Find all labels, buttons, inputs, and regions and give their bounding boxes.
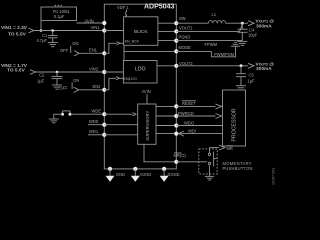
wire WD0 internal: [104, 124, 137, 126]
block BUCK: [124, 17, 158, 46]
ground buck output: [237, 42, 247, 46]
svg-text:AVIN: AVIN: [142, 89, 151, 94]
block PROCESSOR: [223, 90, 246, 146]
svg-text:EN1: EN1: [89, 48, 98, 53]
switch EN1 ON/OFF: [60, 41, 104, 56]
wire PWRGD internal: [156, 115, 176, 117]
wire L1 to node: [226, 22, 248, 25]
wire VIN2 internal: [104, 71, 123, 73]
svg-text:PROCESSOR: PROCESSOR: [232, 108, 238, 141]
IC ADP5043 outline: [104, 4, 176, 169]
wire VOUT2 internal: [157, 65, 176, 67]
ground MODE select: [231, 42, 240, 46]
svg-text:C2: C2: [39, 73, 45, 78]
wire MR external: [176, 161, 207, 163]
pin EN2: [93, 84, 107, 92]
wire WDI from processor: [178, 131, 222, 136]
svg-text:OFF: OFF: [60, 48, 69, 53]
svg-text:BUCK: BUCK: [134, 29, 148, 35]
svg-text:GND: GND: [116, 172, 125, 177]
svg-text:VIN1 = 2.3V: VIN1 = 2.3V: [1, 25, 28, 31]
node VOUT2 output: [248, 61, 274, 72]
switch EN2 ON/OFF: [59, 78, 103, 92]
pin GND: [108, 167, 125, 177]
ground pushbutton: [205, 176, 214, 180]
jumper WDE: [54, 111, 104, 119]
ground C1: [48, 43, 58, 47]
node AVIN feed: [142, 89, 151, 104]
wire PWRGD to processor: [176, 114, 221, 119]
svg-text:FPWM: FPWM: [205, 42, 218, 47]
svg-text:0.1µF: 0.1µF: [54, 14, 65, 19]
node VOUT1 output: [248, 19, 274, 30]
wire AVIN: [77, 22, 104, 24]
wire WDO to processor: [176, 125, 222, 127]
pin RESET: [174, 101, 196, 109]
svg-text:TO 5.5V: TO 5.5V: [7, 67, 26, 73]
wire PGND external: [176, 40, 242, 42]
svg-text:1µF: 1µF: [248, 79, 256, 84]
svg-text:ON: ON: [73, 78, 79, 83]
svg-text:SUPERVISORY: SUPERVISORY: [145, 110, 150, 140]
svg-text:DGND: DGND: [168, 172, 180, 177]
wire VIN2 input: [30, 70, 104, 75]
pin MR: [174, 153, 187, 164]
inductor L1: [209, 12, 226, 23]
svg-text:VIN1: VIN1: [91, 25, 101, 30]
svg-text:PGND: PGND: [179, 35, 191, 40]
pin WDO: [174, 120, 194, 127]
wire VOUT1 feedback: [176, 25, 242, 32]
svg-text:WDO: WDO: [184, 120, 194, 125]
wire SW internal: [158, 22, 176, 24]
svg-text:PWRGD: PWRGD: [178, 111, 194, 116]
svg-text:4.7µF: 4.7µF: [37, 38, 48, 43]
pin VIN2: [89, 66, 106, 74]
svg-text:VDF 1: VDF 1: [117, 5, 129, 10]
pin WD1: [89, 129, 106, 137]
svg-text:SW: SW: [179, 16, 186, 21]
svg-text:PUSHBUTTON: PUSHBUTTON: [223, 166, 253, 171]
svg-text:VIN2: VIN2: [89, 66, 99, 71]
wire VOUT2 external: [176, 64, 248, 67]
svg-text:300mA: 300mA: [256, 66, 272, 72]
svg-text:ON: ON: [72, 41, 78, 46]
pin DGND: [162, 167, 180, 177]
block SUPERVISORY: [138, 104, 156, 144]
svg-text:MR(O): MR(O): [174, 153, 187, 158]
svg-text:1µF: 1µF: [37, 78, 45, 83]
svg-text:TO 5.5V: TO 5.5V: [8, 32, 27, 38]
wire WD1 internal: [104, 134, 137, 136]
pin AVIN: [102, 21, 106, 25]
note marker: [54, 3, 63, 7]
wire VOUT1 internal: [158, 30, 176, 32]
svg-text:LDO: LDO: [135, 67, 146, 73]
svg-text:VOUT1: VOUT1: [179, 26, 193, 31]
pin VIN1: [91, 25, 107, 33]
capacitor C4: [238, 23, 258, 40]
capacitor C1: [37, 31, 58, 44]
ground WDE: [49, 119, 59, 123]
block LDO: [123, 61, 157, 84]
pin SW: [174, 16, 186, 25]
svg-text:EN_BCK: EN_BCK: [125, 39, 140, 43]
pin EN1: [89, 48, 106, 56]
pin WDI: [174, 128, 196, 135]
svg-text:VOUT2: VOUT2: [179, 61, 193, 66]
wire WD1 stub: [88, 134, 104, 136]
wire WDI internal: [156, 133, 176, 135]
ground C3: [52, 85, 62, 89]
capacitor C5: [236, 66, 255, 86]
pin PGND: [174, 35, 190, 43]
svg-text:WDE: WDE: [92, 109, 102, 114]
node MR to processor: [210, 145, 234, 151]
pushbutton MR: [199, 148, 217, 177]
svg-text:WD1: WD1: [89, 129, 99, 134]
wire EN1 internal: [104, 42, 123, 54]
svg-text:ADP5043: ADP5043: [144, 4, 174, 11]
wire SW external: [176, 22, 208, 24]
pin VOUT2: [174, 61, 193, 68]
pin WD0: [89, 119, 106, 127]
node AVIN label: [85, 18, 94, 23]
wire PGND internal: [158, 40, 176, 42]
pin PWRGD: [174, 111, 194, 118]
pin MODE: [174, 45, 191, 54]
node VDDA internal: [117, 5, 129, 17]
svg-text:PWM/PSM: PWM/PSM: [214, 52, 235, 57]
wire MODE internal: [124, 45, 176, 60]
svg-text:L1: L1: [212, 12, 217, 17]
capacitor C3: [37, 72, 63, 85]
svg-text:WD0: WD0: [89, 119, 99, 124]
wire MODE external: [176, 42, 235, 57]
ground AGND pin: [131, 169, 140, 182]
node figure number: [272, 168, 276, 185]
pin AGND: [133, 167, 151, 177]
svg-text:AGND: AGND: [140, 172, 152, 177]
wire EN2 internal: [104, 77, 123, 90]
svg-text:EN|LDO: EN|LDO: [124, 77, 138, 81]
ground LDO output: [236, 86, 246, 90]
wire VIN1 input: [29, 28, 104, 33]
wire RESET to processor: [176, 104, 221, 109]
ground DGND pin: [160, 169, 169, 182]
node pushbutton annotation: [223, 161, 253, 171]
wire VIN1 internal: [104, 30, 123, 32]
wire WDO internal: [156, 125, 176, 127]
svg-text:OFF: OFF: [59, 86, 68, 91]
wire MR internal: [144, 144, 176, 162]
svg-text:EN2: EN2: [93, 84, 102, 89]
pin VOUT1: [174, 26, 193, 34]
wire filter stub: [40, 21, 43, 32]
svg-text:300mA: 300mA: [256, 24, 272, 30]
wire WD0 stub: [88, 124, 104, 126]
wire WDE internal: [104, 113, 136, 116]
svg-text:C5: C5: [249, 73, 255, 78]
filter box R1/C2 (AVIN filter): [41, 7, 77, 21]
svg-text:MR: MR: [227, 146, 233, 151]
ground GND pin: [106, 169, 115, 182]
svg-text:10157-001: 10157-001: [272, 168, 276, 185]
svg-text:10µF: 10µF: [248, 32, 258, 37]
svg-text:AVIN: AVIN: [85, 18, 94, 23]
wire RESET internal: [156, 105, 176, 107]
svg-text:WDI: WDI: [188, 128, 196, 133]
pin WDE: [92, 109, 107, 117]
svg-text:MODE: MODE: [179, 45, 192, 50]
svg-text:RESET: RESET: [182, 101, 196, 106]
node VIN2 source label: [1, 63, 28, 74]
node VIN1 source label: [1, 25, 28, 37]
